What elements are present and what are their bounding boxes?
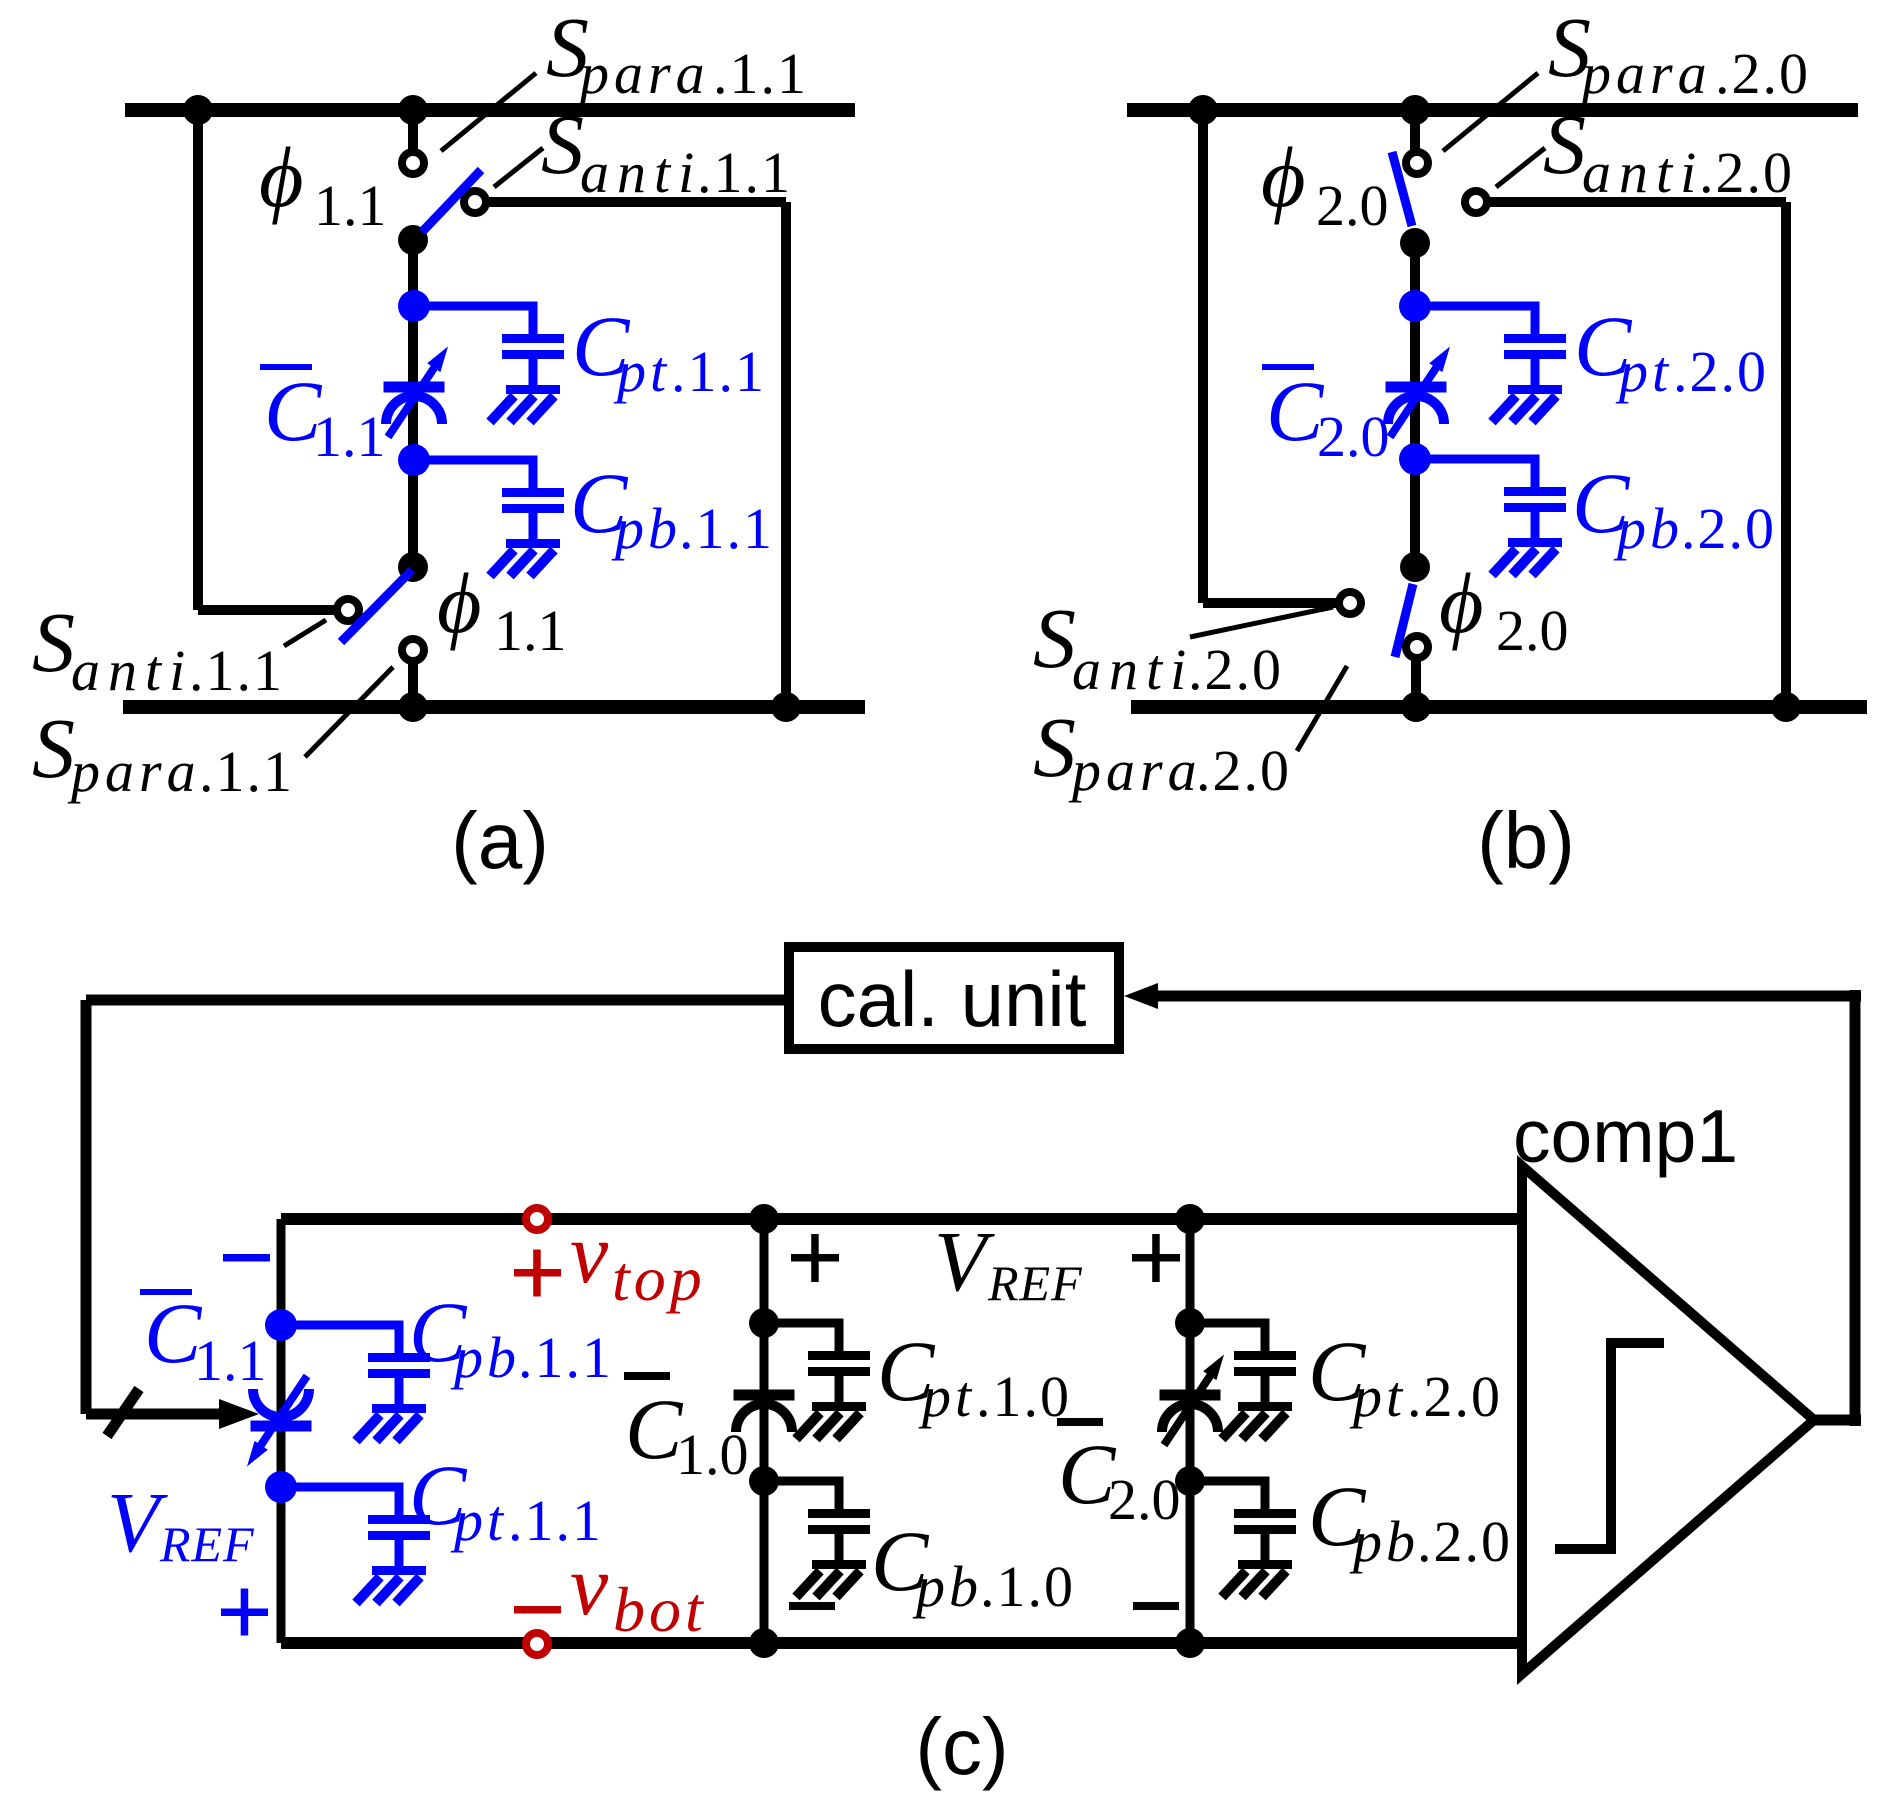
node - panel (a) switch common node top (398, 225, 428, 255)
node - blue top node of C_bar_1.1 (c) (265, 1309, 297, 1341)
label plus (black, right of V_REF) (1132, 1254, 1180, 1262)
capacitor C_bar_2.0 variable on right branch (1160, 1390, 1221, 1401)
node - panel (b) switch common node top (1400, 228, 1430, 258)
label C_bar_1.1 (blue, c) (140, 1289, 192, 1295)
node - panel (a) top rail junction center (398, 95, 428, 125)
cal. unit box (789, 947, 1119, 1049)
wire - panel (b) S_para.2.0 top stub (1410, 110, 1420, 151)
node - panel (a) switch common node bottom (398, 552, 428, 582)
svg-text:pb: pb (1349, 1509, 1419, 1574)
svg-text:anti: anti (580, 140, 702, 205)
svg-text:para: para (576, 41, 710, 106)
switch S_anti.1.1 bottom lever (closed, blue) (341, 570, 412, 642)
svg-text:2.0: 2.0 (1108, 1467, 1181, 1532)
node - panel (b) bottom rail junction center (1401, 692, 1431, 722)
panel (b) bottom rail wire (1131, 700, 1867, 714)
svg-text:1.1: 1.1 (494, 598, 567, 663)
label minus (blue, top of C_bar_1.1) (223, 1254, 270, 1262)
svg-text:.1.1: .1.1 (679, 496, 774, 561)
svg-text:S: S (1033, 699, 1076, 795)
svg-text:2.0: 2.0 (1317, 404, 1390, 469)
svg-text:anti: anti (1072, 637, 1194, 702)
svg-text:anti: anti (71, 638, 193, 703)
node - panel (b) top rail junction left (1188, 95, 1218, 125)
svg-text:.2.0: .2.0 (1699, 140, 1794, 205)
comparator comp1 triangle (1522, 1166, 1814, 1674)
svg-text:ϕ: ϕ (437, 555, 482, 651)
svg-text:pt: pt (450, 1488, 507, 1553)
svg-text:bot: bot (613, 1574, 707, 1645)
svg-text:S: S (32, 700, 75, 796)
node - right branch bottom junction (1175, 1628, 1205, 1658)
node - middle branch lower node (749, 1466, 779, 1496)
svg-text:.2.0: .2.0 (1196, 738, 1291, 803)
label minus (black, left bottom) (789, 1602, 835, 1610)
switch S_anti.1.1 top terminal (464, 191, 486, 213)
svg-text:para: para (67, 739, 201, 804)
node - blue bottom plate node of C_bar_2.0 (1399, 443, 1431, 475)
svg-text:2.0: 2.0 (1316, 173, 1389, 238)
annotation line to S_anti.1.1 top (494, 148, 543, 187)
wire - panel (b) left branch vertical (1198, 110, 1208, 603)
label minus and v_bot (red) (514, 1606, 561, 1614)
wire - blue feed to C_pt.1.1 (c) (281, 1483, 404, 1492)
node - blue top plate node of C_bar_2.0 (1399, 290, 1431, 322)
svg-text:REF: REF (987, 1255, 1083, 1311)
svg-text:pb: pb (912, 1554, 982, 1619)
node - panel (b) top rail junction center (1400, 95, 1430, 125)
wire - panel (b) left branch horizontal to S_anti.2.0 (1203, 598, 1339, 608)
svg-text:.2.0: .2.0 (1681, 496, 1776, 561)
wire - panel (a) right branch vertical (781, 202, 791, 707)
svg-text:v: v (570, 1205, 609, 1301)
arrowhead into cal. unit (1124, 983, 1158, 1009)
wire - panel (b) right branch vertical (1781, 202, 1791, 707)
switch S_anti.2.0 bottom terminal (1339, 592, 1361, 614)
label plus and v_top (red) (514, 1269, 561, 1277)
node - middle branch top junction (749, 1204, 779, 1234)
svg-text:.1.1: .1.1 (671, 339, 766, 404)
svg-text:anti: anti (1582, 140, 1704, 205)
svg-text:1.0: 1.0 (676, 1422, 749, 1487)
label C_bar_2.0 (1057, 1418, 1103, 1426)
svg-text:.1.1: .1.1 (199, 739, 294, 804)
annotation line to S_para.1.1 top (441, 73, 536, 151)
wire - feedback from cal. unit left (86, 995, 784, 1006)
svg-text:.1.0: .1.0 (980, 1554, 1075, 1619)
wire - blue feed to C_pb.1.1 (414, 456, 538, 465)
wire - feed to C_pb.2.0 (c) (1190, 1477, 1270, 1486)
svg-text:.2.0: .2.0 (1673, 339, 1768, 404)
annotation line to S_anti.2.0 top (1496, 148, 1545, 187)
label plus (black, left of V_REF) (791, 1254, 839, 1262)
wire - panel (c) right branch vertical (C_bar_2.0) (1186, 1219, 1195, 1643)
switch S_para.2.0 top terminal (1406, 152, 1428, 174)
control bus arrowhead (219, 1399, 259, 1429)
capacitor C_bar_1.1 variable (blue) on center branch (384, 382, 445, 393)
svg-text:pt: pt (1615, 339, 1672, 404)
svg-text:top: top (612, 1243, 706, 1314)
svg-text:.1.1: .1.1 (697, 140, 792, 205)
svg-text:1.1: 1.1 (314, 173, 387, 238)
svg-text:.1.1: .1.1 (189, 638, 284, 703)
capacitor C_pt.2.0 with ground (c) (1261, 1323, 1270, 1352)
wire - blue feed to C_pt.2.0 (1415, 302, 1540, 311)
svg-text:(b): (b) (1477, 796, 1575, 885)
node - right branch lower node (1175, 1466, 1205, 1496)
svg-text:para: para (1578, 41, 1712, 106)
svg-text:V: V (934, 1213, 995, 1309)
svg-text:1.1: 1.1 (194, 1328, 267, 1393)
capacitor C_pb.1.0 with ground (835, 1481, 844, 1510)
node v_bot terminal (red) (526, 1633, 548, 1655)
capacitor C_pb.2.0 with ground (1531, 459, 1540, 488)
wire - panel (a) left branch horizontal to S_anti.1.1 (198, 605, 337, 615)
label C_bar_1.0 (624, 1372, 670, 1380)
panel (a) top rail wire (125, 103, 855, 117)
annotation line to S_anti.1.1 bottom (284, 620, 326, 646)
label C_bar_2.0 (blue) (1262, 364, 1314, 370)
wire - comparator output to cal. unit (1814, 1415, 1861, 1426)
wire - panel (c) top plate wire v_top (281, 1213, 1522, 1225)
wire - blue feed to C_pb.2.0 (1415, 455, 1540, 464)
svg-text:V: V (107, 1474, 168, 1570)
node - blue bottom node of C_bar_1.1 (c) (265, 1471, 297, 1503)
capacitor C_pb.1.1 with ground (529, 460, 538, 489)
comparator step symbol (1555, 1343, 1664, 1549)
svg-text:comp1: comp1 (1513, 1094, 1738, 1178)
svg-text:(a): (a) (451, 796, 549, 885)
switch S_para.1.1 bottom terminal (402, 639, 424, 661)
control bus slash (107, 1389, 139, 1436)
svg-text:pt: pt (918, 1364, 975, 1429)
annotation line to S_para.2.0 top (1443, 73, 1538, 151)
annotation line to S_anti.2.0 bottom (1190, 607, 1333, 637)
node v_top terminal (red) (526, 1208, 548, 1230)
wire - panel (c) bottom plate wire v_bot (281, 1637, 1522, 1649)
wire - feedback left vertical (81, 1000, 92, 1414)
switch S_para.2.0 bottom lever (closed, blue) (1395, 584, 1413, 657)
svg-text:ϕ: ϕ (259, 129, 304, 225)
node - middle branch upper node (749, 1308, 779, 1338)
wire - panel (c) left branch vertical (C_bar_1.1) (277, 1219, 286, 1643)
switch S_anti.1.1 bottom terminal (337, 599, 359, 621)
node - blue bottom plate node of C_bar_1.1 (398, 444, 430, 476)
wire - feed to C_pt.2.0 (c) (1190, 1319, 1270, 1328)
svg-text:ϕ: ϕ (1439, 555, 1484, 651)
wire - panel (b) S_para.2.0 bottom stub (1411, 660, 1421, 707)
svg-text:para: para (1068, 738, 1202, 803)
svg-text:pt: pt (613, 339, 670, 404)
svg-text:.1.1: .1.1 (713, 41, 808, 106)
svg-text:S: S (32, 594, 75, 690)
svg-text:REF: REF (159, 1516, 255, 1572)
capacitor C_pb.1.1 with ground (c) (395, 1325, 404, 1354)
svg-text:.2.0: .2.0 (1188, 637, 1283, 702)
svg-text:pt: pt (1349, 1364, 1406, 1429)
switch S_anti.2.0 top terminal (1465, 191, 1487, 213)
capacitor C_pb.2.0 with ground (c) (1261, 1481, 1270, 1510)
node - blue top plate node of C_bar_1.1 (398, 290, 430, 322)
svg-text:pb: pb (1613, 496, 1683, 561)
wire - feed to C_pt.1.0 (764, 1319, 844, 1328)
switch S_anti.1.1 top lever (closed, blue) (422, 170, 481, 232)
label minus (black, right bottom) (1133, 1602, 1179, 1610)
switch S_para.1.1 top terminal (402, 152, 424, 174)
capacitor C_pt.1.1 with ground (c) (395, 1487, 404, 1516)
wire - panel (b) right branch horizontal from S_anti.2.0 (1490, 197, 1786, 207)
switch S_para.2.0 top lever (closed, blue) (1392, 152, 1412, 226)
annotation line to S_para.1.1 bottom (305, 667, 393, 757)
wire - control bus horizontal (86, 1409, 225, 1420)
svg-text:S: S (1543, 96, 1586, 192)
label C_bar_1.1 (blue) (260, 364, 312, 370)
switch S_para.2.0 bottom terminal (1406, 636, 1428, 658)
capacitor C_pt.2.0 with ground (1531, 306, 1540, 335)
wire - blue feed to C_pb.1.1 (c) (281, 1321, 404, 1330)
node - panel (b) bottom rail junction right (1771, 692, 1801, 722)
capacitor C_bar_1.1 variable (blue, flipped) in panel (c) (251, 1421, 312, 1432)
svg-text:.2.0: .2.0 (1407, 1364, 1502, 1429)
wire - feed to C_pb.1.0 (764, 1477, 844, 1486)
capacitor C_pt.1.1 with ground (529, 306, 538, 335)
svg-text:.1.0: .1.0 (976, 1364, 1071, 1429)
capacitor C_bar_2.0 variable (blue) on center branch (1386, 382, 1447, 393)
wire - panel (a) right branch horizontal from S_anti.1.1 (488, 197, 786, 207)
svg-text:ϕ: ϕ (1261, 129, 1306, 225)
capacitor C_pt.1.0 with ground (835, 1323, 844, 1352)
node - panel (a) bottom rail junction right (771, 692, 801, 722)
panel (a) bottom rail wire (123, 700, 865, 714)
svg-text:(c): (c) (915, 1702, 1008, 1791)
wire - blue feed to C_pt.1.1 (414, 302, 538, 311)
svg-text:.1.1: .1.1 (518, 1325, 613, 1390)
annotation line to S_para.2.0 bottom (1297, 666, 1347, 751)
svg-text:.2.0: .2.0 (1715, 41, 1810, 106)
svg-text:v: v (570, 1537, 609, 1633)
panel (b) top rail wire (1127, 103, 1858, 117)
node - panel (a) top rail junction left (183, 95, 213, 125)
wire - panel (a) center branch vertical (408, 240, 418, 568)
label plus (blue, bottom of C_bar_1.1) (221, 1609, 268, 1617)
svg-text:1.1: 1.1 (313, 404, 386, 469)
capacitor C_bar_1.0 fixed on middle branch (734, 1390, 795, 1401)
node - right branch upper node (1175, 1308, 1205, 1338)
svg-text:pb: pb (450, 1325, 520, 1390)
node - panel (b) switch common node bottom (1400, 552, 1430, 582)
wire - panel (a) S_para.1.1 top stub (408, 110, 418, 151)
node - panel (a) bottom rail junction center (398, 692, 428, 722)
node - middle branch bottom junction (749, 1628, 779, 1658)
node - right branch top junction (1175, 1204, 1205, 1234)
svg-text:S: S (1033, 590, 1076, 686)
svg-text:pb: pb (611, 496, 681, 561)
wire - panel (c) middle branch vertical (C_bar_1.0) (760, 1219, 769, 1643)
svg-text:.2.0: .2.0 (1417, 1509, 1512, 1574)
svg-text:2.0: 2.0 (1496, 598, 1569, 663)
wire - panel (a) S_para.1.1 bottom stub (408, 662, 418, 707)
svg-text:cal. unit: cal. unit (818, 955, 1087, 1043)
wire - panel (b) center branch vertical (1410, 242, 1420, 568)
wire - panel (a) left branch vertical (193, 110, 203, 610)
svg-text:S: S (541, 96, 584, 192)
